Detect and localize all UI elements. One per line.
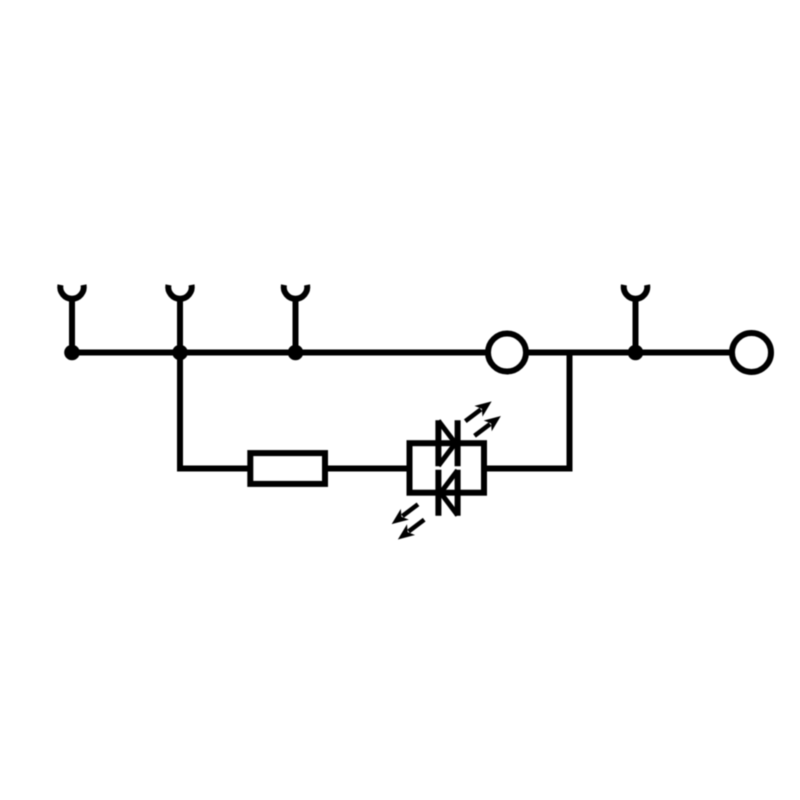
light arrow C (lower) [388,499,422,530]
junction dot node 2 [172,345,188,361]
wire: main bus right section [526,350,732,356]
LED D1 top diode (anode left, points right) [438,420,457,466]
wire: left drop from node 2 [180,353,248,469]
junction dot node 3 [288,345,304,361]
LED D2 bottom diode (anode right, points left) [438,470,457,516]
light arrow B (upper) [470,411,504,442]
terminal clamp 3 [284,285,308,353]
light arrow D (lower) [394,514,428,545]
test socket circle left [488,334,526,372]
LED housing box [410,443,485,493]
terminal clamp 2 [168,285,191,353]
wire: resistor to LED box [325,466,412,472]
wire: main bus left section [70,350,488,356]
resistor R1 [250,453,325,484]
terminal clamp 1 [60,285,84,353]
terminal clamp 4 [624,285,648,353]
wire: right drop to bus [487,353,570,469]
test socket circle right [732,333,771,372]
junction dot node 4 [628,345,644,361]
light arrow A (upper) [461,396,495,427]
junction dot node 1 [64,345,80,361]
